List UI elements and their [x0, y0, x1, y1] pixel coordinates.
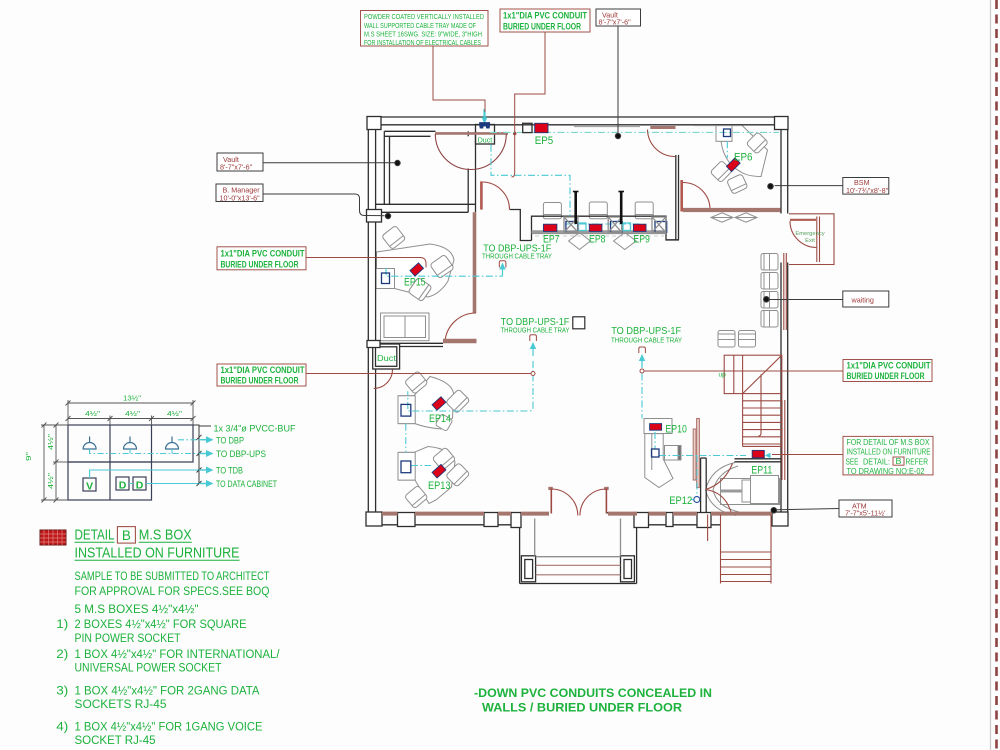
svg-text:FOR DETAIL OF M.S BOX: FOR DETAIL OF M.S BOX: [847, 438, 931, 447]
svg-text:EP10: EP10: [665, 424, 687, 436]
callout box 1x1 left2: [217, 364, 306, 386]
leader ATM: [777, 509, 839, 510]
callout box for-detail: [843, 436, 933, 475]
cable tray symbol at duct: [480, 123, 490, 126]
EP9 box: [633, 224, 646, 231]
svg-text:EP8: EP8: [589, 234, 606, 246]
dimension texts: [24, 394, 182, 490]
B.Manager bottom wall: [376, 342, 443, 344]
outer right wall upper: [780, 130, 782, 214]
BSM bottom wall thick: [683, 208, 781, 212]
svg-text:1 BOX 4½"x4½" FOR INTERNATIONA: 1 BOX 4½"x4½" FOR INTERNATIONAL/: [75, 649, 281, 661]
detail dividers: [109, 425, 111, 500]
svg-text:5 M.S BOXES 4½"x4½": 5 M.S BOXES 4½"x4½": [75, 604, 199, 616]
TO DBP-UPS labels: [482, 243, 682, 344]
svg-text:4½": 4½": [46, 434, 55, 450]
post door jamb left: [548, 487, 553, 490]
EP15 side table: [376, 269, 395, 289]
svg-text:REFER: REFER: [906, 457, 929, 466]
svg-text:WALL SUPPORTED CABLE TRAY MADE: WALL SUPPORTED CABLE TRAY MADE OF: [364, 21, 476, 30]
EP6 desk: [721, 125, 768, 177]
drawing sheet red dashed border: [995, 0, 998, 750]
teller diamond 2: [614, 233, 637, 250]
svg-text:TO DRAWING NO:E-02: TO DRAWING NO:E-02: [847, 467, 925, 476]
lamp domes: [83, 437, 179, 450]
EP8 box: [589, 224, 602, 231]
ATM partition wall: [700, 458, 702, 513]
queue poles: [574, 191, 577, 224]
post bottom wall 3: [484, 513, 498, 527]
ticks: [66, 401, 71, 406]
callout box 1x1 top: [500, 9, 590, 32]
callout box 1x1 right: [843, 360, 932, 382]
svg-text:FOR INSTALLATION OF ELECTRICAL: FOR INSTALLATION OF ELECTRICAL CABLES: [364, 38, 481, 47]
leader 1x1 left box2 (long conduit): [306, 373, 531, 375]
outer top wall: [368, 116, 788, 118]
porch steps: [536, 556, 621, 558]
svg-text:PIN POWER SOCKET: PIN POWER SOCKET: [75, 633, 181, 645]
callout box vault left: [217, 153, 263, 171]
EP6 box rotated: [726, 158, 740, 172]
svg-text:EP11: EP11: [751, 465, 772, 477]
duct room 1 (top): [476, 125, 495, 145]
callout box powder coated: [361, 11, 489, 47]
EP12 outlet circle: [694, 497, 700, 503]
arrow into duct: [482, 117, 488, 124]
svg-text:1x1"DIA PVC CONDUIT: 1x1"DIA PVC CONDUIT: [221, 365, 305, 375]
EP5 box: [535, 123, 548, 132]
BSM diamonds under wall: [711, 213, 733, 222]
vault bottom wall: [376, 203, 476, 205]
B.Manager sofa: [381, 313, 430, 341]
svg-text:4½": 4½": [125, 409, 140, 418]
svg-text:WALLS / BURIED UNDER FLOOR: WALLS / BURIED UNDER FLOOR: [482, 701, 682, 715]
vault half-circle door arc: [435, 134, 506, 170]
arrow up riser2: [530, 342, 536, 349]
porch inner verticals: [534, 519, 536, 556]
EP14 desk: [399, 377, 454, 430]
svg-text:TO DBP: TO DBP: [216, 435, 244, 445]
partition teller/BSM: [675, 155, 677, 240]
vault left inner wall: [383, 131, 385, 204]
svg-text:EP5: EP5: [535, 135, 554, 147]
callout box 1x1 left1: [217, 247, 306, 270]
cyan arrowheads: [482, 109, 771, 458]
outer left wall: [367, 117, 369, 526]
bottom wall red fill segments: [382, 512, 772, 516]
svg-text:2): 2): [56, 649, 68, 661]
detail bracket: [193, 425, 211, 486]
svg-text:EP6: EP6: [734, 152, 753, 164]
EP14 monitor table: [398, 396, 415, 424]
emergency exit door arc: [790, 221, 816, 248]
svg-text:THROUGH CABLE TRAY: THROUGH CABLE TRAY: [501, 325, 570, 334]
arrow up riser3: [639, 354, 645, 361]
detail labels: [214, 424, 296, 490]
post bottom wall 6: [666, 513, 673, 527]
EP14 chair bottom: [435, 414, 453, 432]
teller X boxes: [564, 217, 666, 232]
svg-text:INSTALLED ON FURNITURE: INSTALLED ON FURNITURE: [75, 545, 240, 561]
bottom center note: [474, 686, 712, 715]
V/D outlet boxes: [83, 477, 146, 491]
duct2 door arc: [374, 370, 393, 389]
svg-text:up: up: [719, 372, 727, 379]
svg-text:10'-7¾"x8'-8": 10'-7¾"x8'-8": [846, 186, 889, 195]
svg-text:B: B: [896, 457, 902, 466]
EP10 inner drop: [654, 432, 656, 449]
stairs center rail: [759, 374, 762, 436]
corridor door leaf: [480, 181, 483, 209]
detail box bottom row: [68, 462, 152, 500]
EP14 monitor: [401, 404, 411, 416]
svg-text:THROUGH CABLE TRAY: THROUGH CABLE TRAY: [611, 336, 682, 345]
post left wall at manager wall: [367, 341, 380, 348]
svg-text:4½": 4½": [85, 409, 100, 418]
wall corner/column posts: [366, 117, 788, 528]
post top-left corner: [367, 117, 381, 130]
teller navy squares: [566, 222, 578, 233]
svg-text:4½": 4½": [46, 473, 55, 489]
svg-text:EP15: EP15: [404, 277, 426, 289]
svg-text:V: V: [86, 481, 93, 493]
EP15 chair top-left: [382, 225, 406, 249]
svg-text:7'-7"x5'-11½': 7'-7"x5'-11½': [845, 509, 886, 518]
outer bottom wall: [368, 512, 547, 514]
svg-text:9": 9": [24, 451, 33, 461]
svg-text:1x1"DIA PVC CONDUIT: 1x1"DIA PVC CONDUIT: [503, 10, 587, 20]
svg-text:TO DATA CABINET: TO DATA CABINET: [216, 479, 277, 489]
inner B ref box: [893, 457, 904, 465]
notes text: [56, 571, 280, 747]
svg-text:BURIED UNDER FLOOR: BURIED UNDER FLOOR: [221, 259, 299, 269]
EP7 box: [543, 224, 557, 231]
svg-text:13½": 13½": [123, 394, 141, 403]
leader vault left: [263, 162, 395, 164]
stairs right red wall: [781, 400, 783, 480]
EP15 chair right: [430, 254, 454, 278]
ATM counter top edge: [735, 458, 782, 460]
EP10 printer: [665, 446, 681, 461]
entrance door arc right: [580, 489, 607, 516]
dimension lines: [41, 400, 196, 503]
svg-text:POWDER COATED VERTICALLY INSTA: POWDER COATED VERTICALLY INSTALLED: [364, 12, 484, 21]
EP10 box: [650, 424, 662, 431]
detail box top row: [68, 425, 193, 462]
porch column right: [621, 556, 635, 582]
callout box waiting: [843, 291, 889, 307]
entrance door arc left: [551, 489, 578, 516]
corridor wall thick: [473, 212, 477, 313]
corridor bottom door arc: [445, 313, 476, 342]
EP6 monitor table: [716, 125, 732, 142]
waiting rail brown: [783, 253, 785, 330]
svg-text:-DOWN PVC CONDUITS CONCEALED I: -DOWN PVC CONDUITS CONCEALED IN: [474, 686, 712, 700]
post bottom-left corner: [366, 512, 382, 526]
EP13 stub: [411, 465, 431, 467]
counter lower dashes: [535, 235, 664, 237]
EP5 spare square: [523, 123, 532, 132]
leader for-detail box: [772, 454, 843, 456]
EP6 chair left: [710, 160, 732, 182]
EP13 desk: [399, 447, 455, 504]
EP13 chair bottom: [404, 485, 428, 509]
red hook riser1: [499, 261, 506, 268]
corridor door arc: [483, 182, 510, 210]
BSM lower door arc: [683, 183, 710, 210]
svg-text:BURIED UNDER FLOOR: BURIED UNDER FLOOR: [847, 371, 925, 381]
porch step red lines: [536, 565, 621, 575]
EP14 chair right: [446, 389, 470, 413]
post porch right: [634, 513, 649, 528]
entrance porch: [519, 514, 521, 584]
svg-text:8'-7"x7'-6": 8'-7"x7'-6": [599, 18, 632, 27]
red hook riser2: [530, 335, 537, 341]
svg-text:SOCKETS RJ-45: SOCKETS RJ-45: [75, 699, 167, 711]
EP15 chair bottom: [408, 277, 432, 301]
ATM door arcs: [706, 464, 733, 490]
post porch left: [511, 513, 521, 528]
EP15 box rotated: [410, 263, 423, 276]
svg-text:B: B: [122, 528, 131, 543]
svg-text:EP14: EP14: [429, 413, 451, 425]
entrance door leaf right: [605, 489, 607, 514]
EP6 drop: [726, 141, 728, 158]
svg-text:Exit: Exit: [805, 238, 815, 244]
svg-text:D: D: [136, 480, 144, 492]
EP14 box rotated: [432, 397, 446, 411]
svg-text:waiting: waiting: [851, 295, 874, 304]
svg-text:1x1"DIA PVC CONDUIT: 1x1"DIA PVC CONDUIT: [221, 248, 305, 258]
svg-text:4): 4): [56, 722, 68, 734]
EP labels: [404, 135, 772, 507]
svg-text:SOCKET RJ-45: SOCKET RJ-45: [75, 735, 156, 747]
post bottom-right corner: [772, 512, 788, 526]
gray cable tray segments below top wall: [574, 126, 640, 128]
svg-text:EP12: EP12: [669, 495, 692, 507]
BSM top door header: [650, 126, 675, 129]
svg-text:1x1"DIA PVC CONDUIT: 1x1"DIA PVC CONDUIT: [847, 361, 931, 371]
leader waiting: [770, 299, 844, 301]
vault room top wall: [384, 130, 435, 132]
leader powder coated box: [433, 46, 485, 112]
post door jamb right: [604, 487, 609, 490]
svg-text:1 BOX 4½"x4½" FOR 1GANG VOICE: 1 BOX 4½"x4½" FOR 1GANG VOICE: [75, 722, 263, 734]
svg-text:8'-7"x7'-6": 8'-7"x7'-6": [220, 162, 253, 171]
svg-text:Emergency: Emergency: [795, 231, 824, 237]
teller chair 3: [635, 202, 653, 219]
svg-text:Duct: Duct: [377, 354, 397, 363]
EP15 desk: [377, 244, 455, 297]
entrance door leaf left: [550, 489, 552, 514]
EP10 monitor: [652, 449, 660, 457]
svg-text:TO TDB: TO TDB: [216, 466, 243, 476]
EP5 main line along top wall: [490, 131, 779, 133]
porch column left: [521, 556, 535, 582]
svg-text:THROUGH CABLE TRAY: THROUGH CABLE TRAY: [482, 252, 552, 261]
arrow up riser1: [499, 263, 505, 270]
svg-text:1 BOX 4½"x4½" FOR 2GANG DATA: 1 BOX 4½"x4½" FOR 2GANG DATA: [75, 686, 260, 698]
EP10 desk: [645, 434, 673, 488]
svg-text:Duct: Duct: [478, 135, 493, 144]
svg-text:FOR APPROVAL FOR SPECS.SEE BOQ: FOR APPROVAL FOR SPECS.SEE BOQ: [75, 586, 270, 598]
outer right wall lower: [780, 263, 782, 513]
svg-text:INSTALLED ON FURNITURE: INSTALLED ON FURNITURE: [847, 448, 931, 457]
EP13 box rotated: [432, 464, 446, 478]
EP13 chair right: [446, 463, 470, 487]
svg-text:1x 3/4"ø PVCC-BUF: 1x 3/4"ø PVCC-BUF: [214, 424, 296, 434]
svg-text:D: D: [119, 480, 127, 492]
EP10 to EP11 run: [659, 455, 746, 457]
drawing sheet gray border line: [990, 0, 992, 750]
svg-text:4½": 4½": [167, 409, 182, 418]
exterior stair right side: [720, 515, 722, 584]
post bottom wall 2: [398, 513, 416, 527]
svg-text:3): 3): [56, 686, 68, 698]
waiting chairs column: [761, 254, 778, 271]
svg-text:EP13: EP13: [428, 480, 451, 492]
vault door leaf on top wall: [435, 132, 508, 135]
corridor bottom door leaf: [443, 339, 477, 344]
svg-text:DETAIL:: DETAIL:: [863, 457, 890, 466]
teller diamond 1: [569, 233, 591, 250]
BSM lower door leaf: [680, 180, 683, 212]
EP10 top shelf: [644, 419, 672, 434]
callout box BSM: [843, 178, 889, 195]
emergency exit vestibule outline: [789, 214, 834, 265]
leader 1x1 top box: [512, 32, 546, 177]
black spare square near riser2 label: [573, 317, 585, 329]
junction dot on leader: [513, 132, 517, 136]
svg-text:SEE: SEE: [846, 457, 859, 466]
detail cyan arrows: [199, 436, 214, 487]
EP6 monitor: [724, 129, 731, 137]
svg-text:UNIVERSAL POWER SOCKET: UNIVERSAL POWER SOCKET: [75, 663, 222, 675]
callout box b.manager: [216, 184, 263, 202]
svg-text:M.S BOX: M.S BOX: [139, 528, 192, 544]
counter line: [565, 223, 640, 225]
emergency exit door leaf: [790, 219, 816, 221]
svg-text:BURIED UNDER FLOOR: BURIED UNDER FLOOR: [503, 21, 581, 31]
red stub below atm partition: [707, 515, 709, 542]
EP6 chair top-right: [746, 132, 768, 154]
vault right wall: [467, 169, 469, 213]
stairs lower flight: [742, 394, 744, 447]
leader vault top: [617, 26, 619, 133]
duct room 2: [373, 344, 400, 369]
leader 1x1 right box (long conduit): [645, 370, 844, 372]
riser 3 to EP10: [641, 360, 643, 419]
svg-text:DETAIL: DETAIL: [75, 528, 115, 544]
stairs upper box red: [724, 355, 782, 393]
svg-text:2 BOXES 4½"x4½" FOR SQUARE: 2 BOXES 4½"x4½" FOR SQUARE: [75, 619, 247, 631]
EP13 monitor table: [398, 452, 415, 480]
niche wall right of corridor door: [510, 210, 532, 241]
legend hatch box: [40, 530, 66, 545]
svg-text:TO DBP-UPS: TO DBP-UPS: [216, 449, 266, 459]
svg-text:BURIED UNDER FLOOR: BURIED UNDER FLOOR: [221, 376, 299, 386]
svg-text:EP9: EP9: [633, 234, 650, 246]
leader BSM: [775, 185, 844, 187]
EP14 to EP13 drop: [405, 424, 407, 453]
EP11 box: [752, 450, 764, 457]
ATM privacy arcs: [706, 463, 737, 516]
red hook riser3: [639, 347, 646, 353]
counter gray band: [532, 230, 667, 233]
arrow left into EP11: [765, 453, 771, 458]
svg-text:10'-0"x13'-6": 10'-0"x13'-6": [220, 193, 261, 202]
EP13 monitor: [401, 461, 411, 473]
BSM top door arc: [648, 130, 676, 157]
leader 1x1 left box1: [306, 258, 426, 268]
svg-text:SAMPLE TO BE SUBMITTED TO ARCH: SAMPLE TO BE SUBMITTED TO ARCHITECT: [75, 571, 270, 583]
post top-right corner: [775, 117, 789, 130]
EP15 line: [386, 268, 503, 276]
post bottom wall 7: [697, 513, 711, 528]
EP15 monitor: [382, 273, 390, 284]
ATM machine: [721, 479, 780, 505]
svg-text:1): 1): [56, 619, 68, 631]
detail cyan wiring: [90, 440, 206, 484]
riser 2 to EP14/EP13: [408, 361, 533, 411]
EP13 chair top: [432, 447, 456, 471]
callout box ATM: [839, 500, 892, 517]
post left wall at vault: [367, 210, 382, 223]
duct riser down: [491, 145, 570, 216]
leader b.manager: [263, 194, 385, 216]
callout box vault top: [596, 9, 641, 26]
EP6 chair bottom: [727, 174, 748, 195]
teller chair 2: [589, 202, 607, 219]
teller chair 1: [543, 203, 561, 219]
EP12 branch: [696, 456, 698, 496]
ATM partition screen bars: [693, 429, 696, 480]
EP14 chair top: [404, 371, 428, 395]
waiting chairs pair: [718, 331, 735, 348]
teller counter outline: [532, 216, 680, 240]
